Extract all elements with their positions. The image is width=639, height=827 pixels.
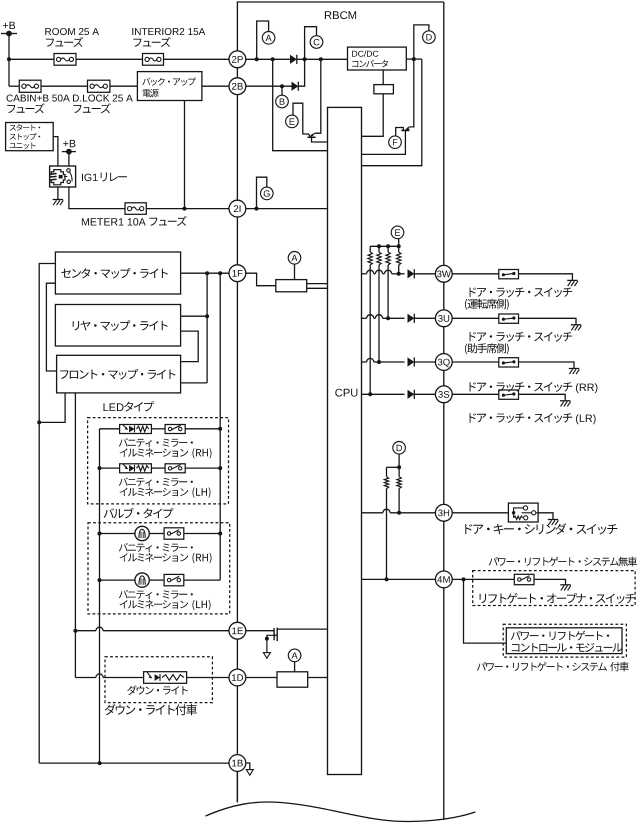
wire A note to 1D resistor	[294, 662, 296, 672]
resistor block 1D	[277, 672, 308, 687]
label vanity mirror LH (LED)	[119, 477, 193, 486]
circled note G	[261, 187, 274, 200]
bulb type dashed enclosure	[88, 523, 230, 614]
node 1F-a	[205, 271, 209, 275]
wire bulb RH mid	[149, 533, 164, 535]
node 4M branch	[462, 577, 466, 581]
switch bulb LH	[164, 574, 184, 585]
power +B terminal 1	[1, 33, 17, 35]
node 2I-G	[255, 207, 259, 211]
wire 3Q row	[362, 361, 367, 363]
diode 3U	[408, 314, 415, 323]
wire hook to D	[414, 25, 429, 59]
connector 1D	[229, 669, 246, 686]
liftgate opener switch	[514, 574, 534, 584]
label vanity mirror LH (bulb)	[119, 590, 193, 599]
door latch switch (RR)	[499, 358, 519, 367]
ground 3W	[567, 279, 577, 281]
node LED LH	[218, 466, 222, 470]
wire rail B (1F to vanity)	[219, 273, 221, 580]
wire vanity left rail	[99, 429, 101, 763]
transistor Q2 emitter wire	[362, 131, 406, 155]
label vanity mirror RH (bulb)	[119, 543, 193, 552]
wire diode to DC/DC	[297, 58, 348, 60]
wire 2I row to CPU	[246, 208, 328, 210]
circled note B	[276, 95, 289, 108]
connector 4M	[435, 571, 452, 588]
transistor Q2	[405, 127, 409, 130]
node junction METER1 row	[183, 207, 187, 211]
wire 2P branch to CPU	[273, 59, 328, 150]
wire hook F to Q2 base	[396, 128, 404, 137]
door latch switch (driver side)	[499, 270, 519, 279]
wire 1D resistor to CPU	[308, 677, 328, 679]
center map light unit	[55, 252, 180, 294]
RBCM label	[325, 11, 356, 19]
ground 3H	[548, 519, 558, 521]
circled note A (1D)	[288, 649, 301, 662]
CPU block U-CPU	[328, 107, 362, 774]
circled note D (top)	[423, 31, 436, 44]
wire FET source	[267, 635, 277, 652]
rear map light unit	[55, 305, 180, 347]
wire METER1 fuse to 2I	[146, 208, 229, 210]
switch bulb RH	[164, 528, 184, 539]
CPU label	[335, 389, 357, 397]
connector 3Q	[435, 354, 452, 371]
wire rail A (map lights)	[206, 273, 208, 383]
node bulb LH left	[98, 578, 102, 582]
label down light	[127, 685, 188, 695]
wire latch 3S to ground	[519, 394, 566, 401]
resistor key-2	[398, 467, 400, 476]
resistor R-3W	[398, 246, 400, 252]
wire front map bottom rail to 1E/1D	[74, 393, 76, 678]
wire 3H row	[362, 512, 383, 514]
node DC/DC out	[412, 57, 416, 61]
door key cylinder switch	[508, 503, 538, 522]
resistor R-3U	[387, 246, 389, 252]
wire LED RH mid	[151, 428, 165, 430]
node rear-map junction	[205, 314, 209, 318]
resistor R-3S	[369, 246, 371, 252]
node 4M resistor junction	[385, 577, 389, 581]
wire center map left 2 to front map left	[46, 283, 56, 371]
fuse METER1 10A	[125, 203, 146, 215]
wire 3H to key cylinder switch	[452, 512, 508, 514]
wire bulb RH row left	[100, 533, 135, 535]
wire 1D row left	[75, 677, 96, 679]
wire bulb LH mid	[149, 579, 164, 581]
wire 1E row	[75, 630, 96, 632]
door latch switch (passenger side)	[499, 314, 519, 323]
wire +B to IG1 relay switch	[68, 152, 70, 166]
wire DC/DC output	[406, 58, 422, 60]
wire bulb LH right	[184, 579, 220, 581]
wire hook to A	[257, 21, 269, 59]
node 2P-b	[271, 57, 275, 61]
LED lamp RH (vanity mirror illumination RH)	[120, 425, 152, 434]
wire D.LOCK fuse to backup power unit	[110, 85, 137, 87]
bulb lamp RH (vanity mirror illumination RH)	[135, 526, 149, 540]
wire 1B tail	[246, 763, 250, 770]
node 2P-a	[255, 57, 259, 61]
wire hook E to Q1 base	[293, 103, 310, 137]
wire front map light lower	[181, 382, 208, 384]
label door latch switch passenger	[470, 332, 573, 342]
node LED RH	[218, 427, 222, 431]
wire 3W to latch switch	[452, 273, 499, 275]
wire 1B bottom	[236, 771, 238, 802]
circled note D (key)	[393, 442, 406, 455]
ground 4M	[560, 584, 570, 586]
diode 2P row	[290, 55, 297, 64]
ground IG1 relay	[53, 199, 63, 201]
wire down light to 1D	[187, 677, 229, 679]
power liftgate control module	[506, 628, 622, 654]
wire center map left to left rail	[39, 264, 55, 764]
resistor R-3Q	[378, 246, 380, 252]
node 1E junction	[73, 629, 77, 633]
switch LED RH	[165, 425, 185, 434]
wire start-stop unit to IG1 relay coil	[53, 137, 58, 166]
diode 3S	[408, 390, 415, 399]
wire 4M to opener switch	[452, 578, 514, 580]
wire backup power to METER1 row	[184, 101, 186, 209]
wire backup power to 2B	[202, 85, 229, 87]
wire resistor bank bus	[370, 245, 399, 247]
node 1F-b	[218, 271, 222, 275]
transistor Q1	[311, 133, 315, 136]
connector 1B	[229, 755, 246, 772]
wire left rail to 1B	[39, 762, 229, 764]
wire LED LH mid	[151, 467, 165, 469]
label liftgate opener switch	[480, 593, 636, 604]
ground 3U	[571, 324, 581, 326]
wire LED RH right	[185, 428, 220, 430]
node 1B rail junction	[98, 761, 102, 765]
label vanity mirror RH (LED)	[119, 438, 193, 447]
wire DC/DC out to CPU right	[362, 59, 422, 166]
fuse CABIN+B 50A	[19, 80, 41, 92]
capacitor block	[374, 85, 394, 94]
relay IG1	[50, 166, 76, 187]
node left-rail junction	[37, 420, 41, 424]
wire bulb LH row left	[100, 579, 135, 581]
wire capacitor to CPU	[362, 94, 384, 137]
bulb type label	[104, 508, 174, 519]
wire 4M row	[362, 578, 436, 580]
wire E to bus	[398, 239, 400, 247]
node 2P-c	[303, 57, 307, 61]
wire CABIN row	[9, 85, 19, 87]
resistor block 1F	[276, 280, 307, 292]
wire 3U row	[362, 317, 367, 319]
door latch switch (LR)	[499, 390, 519, 399]
wire latch 3Q to ground	[519, 362, 575, 369]
wire FET drain to CPU	[277, 628, 327, 630]
wire D to resistor pair	[398, 454, 400, 467]
front map light unit	[57, 355, 181, 393]
circled note E (bank)	[391, 226, 404, 239]
label down light equipped	[105, 704, 197, 715]
wire 1E to FET gate	[246, 630, 274, 632]
wire IG1 coil to ground	[57, 187, 59, 200]
node LED LH left	[98, 466, 102, 470]
node 2B-B	[280, 84, 284, 88]
diode 3W	[408, 269, 415, 278]
label no power liftgate system	[489, 557, 637, 567]
wire ROOM fuse to INTERIOR2 fuse	[76, 58, 143, 60]
wire 2B row	[246, 85, 292, 87]
wire 3S to latch switch	[452, 393, 499, 395]
wire 3Q to latch switch	[452, 361, 499, 363]
node FET source	[265, 637, 269, 641]
ground 3S	[560, 400, 570, 402]
wire 3W row	[362, 273, 367, 275]
node bus-2	[386, 244, 390, 248]
wire LED RH row left	[100, 428, 120, 430]
start-stop unit	[6, 123, 54, 151]
circled note A (top)	[262, 32, 275, 45]
label door latch switch driver	[470, 287, 573, 297]
wire ROOM fuse row	[9, 58, 54, 60]
wire opener switch to ground	[534, 579, 566, 584]
connector 1E	[229, 622, 246, 639]
page break wave	[206, 802, 476, 822]
backup power unit	[137, 72, 202, 101]
wire latch 3U to ground	[519, 318, 577, 325]
transistor FET 1E	[273, 628, 275, 640]
wire 4M to control module	[464, 579, 507, 643]
fuse INTERIOR2 15A	[143, 54, 164, 66]
resistor key-1	[386, 467, 388, 476]
wire 2P row	[246, 58, 290, 60]
wire front map bottom stub 1	[39, 393, 65, 423]
wire resistor to CPU double-line	[307, 283, 328, 285]
wire LED LH right	[185, 467, 220, 469]
connector 3W	[435, 265, 452, 282]
wire rear map light upper	[181, 315, 208, 317]
wire DC/DC to capacitor	[382, 70, 384, 85]
page arrow 1B	[246, 770, 253, 776]
circled note C	[310, 36, 323, 49]
fuse D.LOCK 25 A	[88, 80, 110, 92]
LED type dashed enclosure	[88, 418, 229, 504]
bulb lamp LH (vanity mirror illumination LH)	[135, 573, 149, 587]
connector 2B	[229, 78, 246, 95]
node bulb RH	[218, 532, 222, 536]
wire IG1 switch to METER1 fuse	[69, 187, 125, 209]
connector 1F	[229, 265, 246, 282]
label door latch switch RR	[470, 382, 573, 392]
node 2P-d	[319, 57, 323, 61]
diode 2B row	[292, 82, 299, 91]
LED type label	[104, 403, 124, 411]
power liftgate control module dashed enclosure	[503, 624, 626, 657]
ground 3Q	[569, 368, 579, 370]
label door key cylinder switch	[465, 523, 617, 534]
transistor Q2 collector wire	[409, 59, 414, 127]
node D junction	[397, 465, 401, 469]
power +B terminal 2	[62, 151, 76, 153]
node bus-3	[397, 244, 401, 248]
node bus-1	[377, 244, 381, 248]
wire 3S row	[362, 393, 405, 395]
liftgate opener dashed enclosure	[473, 571, 635, 606]
DC/DC converter U2	[348, 47, 407, 70]
RBCM module outline	[237, 2, 443, 802]
wire 2B diode up to 2P row	[299, 59, 305, 86]
wire center map light to 1F	[181, 272, 229, 274]
fuse ROOM 25 A	[54, 54, 76, 66]
wire 1F to resistor	[246, 273, 276, 286]
label power liftgate system equipped	[477, 662, 629, 672]
connector 2I	[229, 200, 246, 217]
wire hook to G	[257, 177, 267, 208]
node junction +B/ROOM	[7, 57, 11, 61]
connector 3H	[435, 504, 452, 521]
wire +B vertical	[8, 34, 10, 87]
label door latch switch LR	[470, 413, 573, 423]
wire latch 3W to ground	[519, 274, 573, 281]
connector 3S	[435, 386, 452, 403]
wire bulb RH right	[184, 533, 220, 535]
wire A note to resistor	[294, 264, 296, 280]
wire 1D to resistor	[246, 677, 277, 679]
wire CABIN fuse to D.LOCK fuse	[41, 85, 88, 87]
wire 3U to latch switch	[452, 317, 499, 319]
switch LED LH	[165, 464, 185, 473]
LED lamp down light	[144, 672, 187, 684]
down light dashed enclosure	[105, 657, 212, 703]
page arrow below FET	[263, 653, 270, 659]
connector 2P	[229, 51, 246, 68]
circled note E	[286, 115, 299, 128]
diode 3Q	[408, 357, 415, 366]
LED lamp LH (vanity mirror illumination LH)	[120, 464, 152, 473]
connector 3U	[435, 310, 452, 327]
transistor Q1 collector wire	[315, 59, 321, 133]
wire INTERIOR2 fuse to 2P	[164, 58, 230, 60]
wire stub to B	[281, 86, 283, 95]
circled note A (1F)	[288, 251, 301, 264]
wire LED LH row left	[100, 467, 120, 469]
wire key cylinder to ground	[538, 513, 553, 520]
node bulb RH left	[98, 532, 102, 536]
circled note F	[389, 136, 402, 149]
transistor Q1 emitter wire	[312, 137, 328, 142]
wire hook to C	[305, 27, 317, 60]
wire rear map light loop to front map light	[181, 331, 199, 362]
